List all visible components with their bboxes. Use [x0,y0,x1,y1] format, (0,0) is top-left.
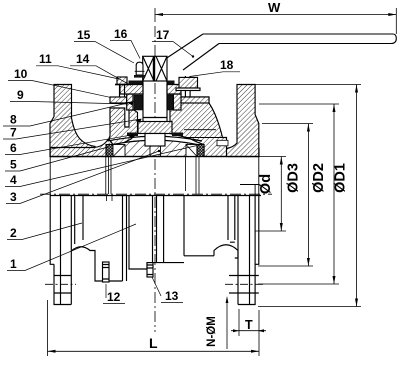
right body step lines [184,130,223,138]
svg-text:7: 7 [10,126,17,140]
part 2 left flange disc (section) [50,85,95,157]
left body band [50,140,113,157]
right flange bolt circle mark [225,283,264,285]
part 6 stem [143,81,167,122]
dimension W [155,8,396,34]
svg-text:16: 16 [114,27,128,41]
right flange disc (section) [227,85,259,157]
body relief notch [217,140,228,146]
part 14 stud left [120,85,125,98]
left flange bolt circle mark [45,283,76,285]
svg-text:10: 10 [14,67,28,81]
gland follower dark right [167,81,175,85]
svg-text:8: 8 [10,113,17,127]
svg-text:15: 15 [77,28,91,42]
svg-text:2: 2 [10,226,17,240]
body neck left wall [109,108,138,145]
svg-text:1: 1 [10,257,17,271]
dimension L [48,300,260,356]
dimension OD1 [255,85,361,307]
left flange lower disc [50,196,71,305]
svg-text:Ød: Ød [258,174,274,194]
stem tang [145,134,165,147]
bonnet neck right [173,94,181,110]
svg-text:L: L [149,335,158,351]
stem collar [138,122,172,134]
svg-text:N-ØM: N-ØM [206,316,218,347]
svg-text:11: 11 [39,52,52,66]
svg-text:ØD3: ØD3 [286,163,302,193]
svg-text:17: 17 [156,28,170,42]
part 9 gland [120,85,181,95]
dimension OD3 [258,124,313,267]
svg-text:12: 12 [107,290,121,304]
left flange face line in bore region [49,157,51,196]
svg-text:5: 5 [10,158,17,172]
svg-text:W: W [268,0,281,15]
part 4 left seat ring [106,145,113,157]
svg-text:4: 4 [10,173,17,187]
right seat ring [197,145,204,157]
left seat edge in bore [106,157,111,195]
right seat edge in bore [186,157,200,195]
part 3 ball (section hatch) [113,140,197,156]
part 7 thrust washer left [127,133,138,137]
part 10 bonnet plate left wing [110,97,127,103]
svg-text:6: 6 [10,141,17,155]
part 8 packing left [134,95,143,110]
part 13 bolt [147,263,153,277]
svg-text:14: 14 [76,52,90,66]
part 12 bolt [103,262,110,282]
dimension OD2 [258,104,339,284]
part 16 stem nut X box [143,56,167,81]
right flange lower disc [229,196,259,305]
seat line stubs lower half [107,196,113,202]
bonnet plate right wing [181,97,209,103]
svg-text:3: 3 [10,190,17,204]
bore top edge [50,156,259,158]
left seat spring [113,145,125,157]
dimension Od [255,157,286,232]
right seat spring [186,145,197,157]
part 1 body right side (section) [170,94,259,157]
stem vertical centerline [154,26,156,332]
right flange face lines [240,157,259,196]
svg-text:T: T [245,318,253,332]
nut right [179,77,198,88]
ball cavity arc [108,136,203,141]
packing right [167,95,173,110]
lower half silhouette top edge [50,195,261,197]
svg-text:ØD2: ØD2 [311,163,327,193]
pipe axis centerline [40,193,272,195]
svg-text:13: 13 [165,289,179,303]
dimension T [231,309,266,336]
thrust washer right [172,133,183,137]
part 15 grub screw [136,62,143,75]
part 11 nut left [117,77,127,85]
left cap lower silhouette [72,196,238,282]
part 17 handle [166,34,396,70]
svg-text:ØD1: ØD1 [333,163,349,193]
svg-text:9: 9 [17,88,24,102]
svg-text:18: 18 [220,58,234,72]
part 18 stud right [185,76,190,97]
gland follower dark left [129,81,143,85]
bonnet neck left [127,94,133,110]
